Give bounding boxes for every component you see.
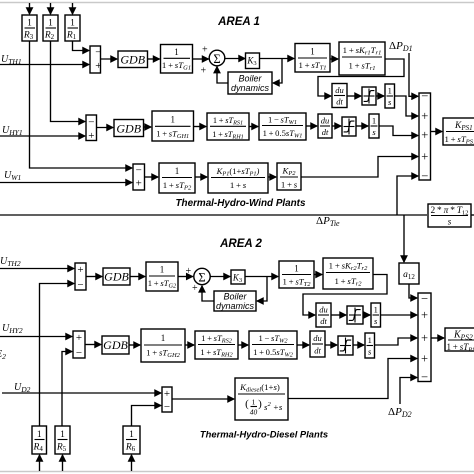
- svg-text:R1: R1: [66, 31, 77, 42]
- wire RS1 to TW1: [249, 126, 258, 128]
- svg-text:+: +: [88, 130, 94, 142]
- wire branch to boiler2 input: [257, 277, 267, 302]
- wire U_W1 to summer S13 plus: [0, 182, 132, 184]
- svg-text:s2 +s: s2 +s: [264, 401, 283, 412]
- wire dP_D2 into summer2: [400, 378, 417, 405]
- svg-text:−: −: [421, 169, 428, 183]
- wire tie line: [0, 214, 427, 216]
- block boiler dynamics 2: [214, 291, 256, 311]
- block 1/s hydro2: [365, 333, 375, 358]
- block K3 area1: [246, 53, 260, 69]
- block 1/R5: [55, 426, 70, 454]
- svg-text:40: 40: [250, 408, 258, 417]
- svg-text:−: −: [421, 370, 428, 384]
- wire TW2 to du/dt hydro2: [297, 344, 309, 346]
- wire S12 to GDB2: [97, 127, 114, 129]
- block 1/R6: [123, 426, 140, 454]
- svg-text:R2: R2: [44, 31, 55, 42]
- wire tie down to a12: [403, 215, 405, 262]
- svg-text:+: +: [202, 45, 208, 56]
- block 1/s hydro1: [369, 114, 379, 138]
- wire boiler2 output to sigma2: [202, 286, 214, 301]
- wire RS2 to TW2: [238, 344, 248, 346]
- svg-text:dt: dt: [314, 346, 321, 356]
- wire S13 to TP2: [145, 176, 159, 178]
- wire S23 to K_diesel: [172, 398, 234, 400]
- wire U_TH2 to summer S21 plus: [0, 268, 74, 270]
- top page rule: [0, 2, 474, 4]
- svg-text:1: 1: [294, 264, 299, 274]
- svg-text:1 + s: 1 + s: [230, 180, 247, 190]
- block du/dt hydro1: [318, 114, 332, 138]
- wire bottom into 1/R5: [62, 455, 64, 471]
- wire TGH1 to RS1: [194, 126, 207, 128]
- svg-text:−: −: [421, 89, 428, 103]
- svg-text:dt: dt: [320, 316, 327, 326]
- wire K_diesel to summer2 diesel input: [288, 359, 417, 399]
- svg-text:−: −: [164, 401, 170, 413]
- svg-text:Thermal-Hydro-Wind Plants: Thermal-Hydro-Wind Plants: [176, 198, 306, 209]
- wire du/dt to limiter hydro1: [332, 125, 341, 127]
- svg-text:+: +: [95, 60, 101, 72]
- wire limiter to 1/s thermal1: [376, 95, 384, 97]
- op rate limiter thermal1: [362, 87, 376, 105]
- svg-text:1: 1: [160, 265, 165, 275]
- svg-text:+: +: [421, 150, 428, 164]
- svg-text:GDB: GDB: [120, 53, 145, 67]
- block 1/(1+sT_P2): [159, 163, 195, 193]
- svg-text:1: 1: [252, 398, 256, 407]
- wire branch to boiler1 input: [273, 59, 282, 84]
- svg-text:+: +: [201, 66, 207, 77]
- bottom page rule: [0, 471, 474, 473]
- block 1/R1: [65, 15, 80, 41]
- wire du/dt to limiter hydro2: [325, 344, 337, 346]
- svg-text:+: +: [192, 283, 198, 294]
- svg-text:dynamics: dynamics: [231, 83, 270, 93]
- svg-text:R3: R3: [23, 31, 34, 42]
- svg-text:du: du: [313, 333, 322, 343]
- wire U_TH1 to summer S11 plus: [0, 64, 89, 66]
- svg-text:AREA 2: AREA 2: [219, 238, 262, 250]
- svg-text:1: 1: [374, 305, 378, 315]
- summer main area1: [419, 89, 431, 183]
- svg-text:R5: R5: [56, 443, 67, 454]
- svg-text:−: −: [136, 165, 142, 177]
- svg-text:GDB: GDB: [103, 338, 128, 352]
- summer S23: [162, 387, 172, 413]
- svg-text:1: 1: [372, 116, 376, 126]
- svg-text:Σ: Σ: [198, 270, 205, 284]
- wire 1/R2 down to summer S12 minus: [51, 41, 86, 122]
- block 1/(1+sT_G2): [146, 262, 178, 291]
- block 2*pi*T12/s: [428, 204, 471, 227]
- wire S22 to GDB4: [85, 344, 101, 346]
- wire into block 1/R3: [29, 3, 31, 14]
- svg-text:1: 1: [170, 115, 175, 125]
- wire limiter to 1/s hydro2: [353, 344, 364, 346]
- summer S13: [133, 164, 145, 190]
- block (1-sT_W2)/(1+0.5sT_W2): [249, 331, 297, 359]
- svg-text:1: 1: [129, 430, 134, 440]
- op rate limiter thermal2: [347, 306, 363, 324]
- block 1/s thermal1: [385, 84, 395, 108]
- wire 1/s thermal2 to summer2: [381, 314, 418, 316]
- block K_PS2 power system area2: [445, 328, 474, 353]
- wire reheat2 output step down to du/dt area2: [303, 275, 387, 316]
- svg-text:1: 1: [310, 47, 315, 57]
- svg-text:R4: R4: [33, 443, 44, 454]
- block a12: [399, 263, 419, 284]
- wire bottom into 1/R6: [131, 455, 133, 471]
- summer S21: [75, 263, 86, 291]
- wire TG2 to sigma2: [178, 276, 193, 278]
- wire U_D2 to summer S23 plus: [2, 392, 161, 394]
- svg-text:dt: dt: [322, 127, 329, 137]
- wire S11 to GDB1: [101, 58, 118, 60]
- wire limiter to 1/s thermal2: [363, 314, 370, 316]
- wire 1/R6 up to summer S23 minus: [132, 406, 162, 427]
- svg-text:du: du: [321, 116, 330, 126]
- wire 1/s thermal1 to summer1: [395, 96, 419, 116]
- wire TW1 to du/dt hydro1: [306, 125, 317, 127]
- block du/dt hydro2: [310, 331, 325, 357]
- wire limiter to 1/s hydro1: [356, 125, 368, 127]
- svg-text:1 + sKr1Tr1: 1 + sKr1Tr1: [343, 45, 382, 57]
- wire TG1 to sigma1: [193, 58, 209, 60]
- block 1/R3: [22, 15, 37, 41]
- block GDB2: [114, 120, 144, 137]
- block boiler dynamics 1: [228, 72, 272, 94]
- block (1+sK_r1 T_r1)/(1+sT_r1): [339, 42, 385, 75]
- svg-text:Σ: Σ: [213, 52, 220, 66]
- svg-text:−: −: [76, 347, 82, 359]
- wire GDB3 to TG2: [130, 276, 145, 278]
- svg-text:Thermal-Hydro-Diesel Plants: Thermal-Hydro-Diesel Plants: [200, 429, 328, 440]
- summer S11: [90, 46, 102, 73]
- wire du/dt to limiter thermal2: [331, 314, 346, 316]
- op rate limiter hydro1: [342, 117, 356, 136]
- block 1/(1+sT_GH1): [152, 111, 194, 141]
- svg-text:1: 1: [27, 19, 32, 29]
- wire KP1 to KP2: [268, 176, 276, 178]
- wire U_HY1 to summer S12 plus: [0, 135, 85, 137]
- svg-text:+: +: [421, 128, 428, 142]
- wire 1/R1 output to summer S11 minus: [73, 41, 90, 51]
- wire into block 1/R2: [50, 3, 52, 14]
- svg-text:+: +: [164, 388, 170, 400]
- block K_P1(1+sT_P1)/(1+s): [208, 163, 268, 193]
- op sigma1 circle: [209, 50, 225, 66]
- block (1+sK_r2 T_r2)/(1+sT_r2): [323, 258, 373, 289]
- block K_diesel (1+s)/((1/40)s^2+s): [235, 378, 288, 420]
- svg-text:−: −: [77, 279, 83, 291]
- block (1+sT_RS1)/(1+sT_RH1): [207, 113, 249, 140]
- svg-text:1: 1: [388, 86, 392, 96]
- block K_PS1 power system area1: [443, 118, 474, 146]
- svg-text:du: du: [319, 305, 328, 315]
- wire sigma2 to K3 area2: [210, 276, 230, 278]
- svg-text:−: −: [95, 47, 101, 59]
- wire GDB4 to TGH2: [129, 344, 140, 346]
- wire summer1 to K_PS1: [431, 131, 443, 133]
- svg-text:Boiler: Boiler: [223, 292, 247, 302]
- wire TGH2 to RS2: [185, 344, 194, 346]
- block 1/(1+sT_G1): [161, 45, 193, 74]
- op sigma2 circle: [194, 268, 210, 284]
- block du/dt thermal1: [332, 84, 347, 108]
- svg-text:Boiler: Boiler: [238, 74, 262, 84]
- svg-text:GDB: GDB: [116, 122, 141, 136]
- block GDB1: [118, 51, 148, 68]
- wire K3 area2 to TT2: [245, 276, 278, 278]
- svg-text:R6: R6: [125, 443, 136, 454]
- wire 1/s hydro2 to summer2: [375, 338, 418, 345]
- wire boiler1 output to sigma1: [217, 67, 228, 83]
- svg-text:+: +: [421, 352, 428, 366]
- wire U_HY2 to summer S22 plus: [0, 336, 72, 338]
- wire tie to summer1 bottom minus: [397, 176, 418, 215]
- svg-text:−: −: [421, 292, 428, 306]
- svg-text:(: (: [245, 398, 249, 410]
- svg-text:AREA 1: AREA 1: [217, 16, 260, 28]
- block 1/R4: [32, 426, 47, 454]
- svg-text:+: +: [76, 332, 82, 344]
- wire sigma1 to K3: [225, 58, 245, 60]
- svg-text:1: 1: [48, 19, 53, 29]
- svg-text:1: 1: [60, 430, 65, 440]
- wire TT1 to R1 reheat: [330, 58, 338, 60]
- block 1/(1+sT_T2): [279, 261, 314, 288]
- svg-text:GDB: GDB: [104, 270, 129, 284]
- wire 1/R4 up to summer S21 minus: [40, 284, 75, 427]
- block 1/s thermal2: [371, 303, 381, 327]
- svg-text:1: 1: [174, 47, 179, 57]
- wire TP2 to KP1: [195, 176, 207, 178]
- svg-text:−: −: [88, 117, 94, 129]
- summer S12: [86, 115, 97, 142]
- svg-text:+: +: [421, 109, 428, 123]
- svg-text:1 + s: 1 + s: [281, 180, 298, 190]
- wire 1/s hydro1 to summer1: [379, 126, 418, 136]
- block 1/(1+sT_T1): [295, 44, 330, 73]
- op rate limiter hydro2: [338, 336, 353, 355]
- block K3 area2: [231, 270, 245, 284]
- svg-text:+: +: [421, 308, 428, 322]
- wire into block 1/R1: [72, 3, 74, 14]
- wire du/dt to limiter thermal1: [347, 95, 361, 97]
- wire bottom into 1/R4: [39, 455, 41, 471]
- wire 1/R3 down to summer S13 minus: [30, 41, 133, 168]
- svg-text:+: +: [136, 178, 142, 190]
- wire S21 to GDB3: [86, 276, 102, 278]
- wire K3 to TT1: [260, 58, 295, 60]
- svg-text:+: +: [77, 264, 83, 276]
- wire dP_D1 into summer1: [409, 53, 418, 96]
- wire reheat1 output step down to du/dt: [318, 59, 404, 96]
- wire KP2 to summer1 wind input: [301, 157, 418, 178]
- svg-text:+: +: [421, 331, 428, 345]
- block 1/R2: [43, 15, 58, 41]
- svg-text:s: s: [448, 217, 452, 227]
- summer S22: [73, 331, 85, 359]
- wire a12 to summer2 minus: [409, 284, 417, 298]
- block 1/(1+sT_GH2): [141, 329, 185, 362]
- svg-text:1: 1: [175, 166, 180, 176]
- svg-text:1: 1: [37, 430, 42, 440]
- block K_P2/(1+s): [277, 163, 301, 190]
- wire GDB1 to TG1: [148, 58, 160, 60]
- block GDB3: [103, 268, 130, 285]
- svg-text:): ): [258, 398, 262, 410]
- block GDB4: [102, 336, 129, 354]
- svg-text:dynamics: dynamics: [216, 301, 255, 311]
- svg-text:du: du: [335, 85, 344, 95]
- svg-text:1: 1: [161, 333, 166, 343]
- wire stub into 2piT12 from right edge: [471, 214, 474, 216]
- svg-text:dt: dt: [336, 97, 343, 107]
- wire 1/R5 up to summer S22 minus: [62, 352, 72, 427]
- svg-text:1: 1: [368, 335, 372, 345]
- block (1+sT_RS2)/(1+sT_RH2): [195, 331, 238, 359]
- block du/dt thermal2: [316, 303, 331, 327]
- wire GDB2 to TGH1: [144, 126, 152, 128]
- summer main area2: [418, 292, 431, 385]
- block (1-sT_W1)/(1+0.5sT_W1): [259, 113, 306, 140]
- svg-text:1: 1: [70, 19, 75, 29]
- wire summer2 to K_PS2: [431, 337, 444, 339]
- wire TT2 to reheat2: [314, 274, 322, 276]
- svg-text:+: +: [186, 266, 192, 277]
